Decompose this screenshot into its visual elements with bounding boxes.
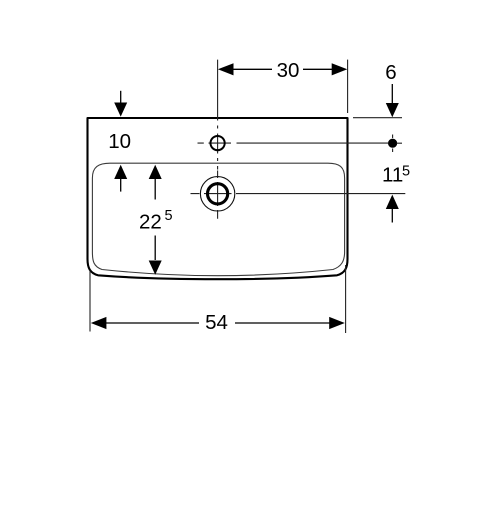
dim 10 arrow up	[114, 165, 127, 179]
drain outer circle	[200, 177, 234, 211]
svg-text:5: 5	[165, 208, 173, 224]
faucet hole	[211, 136, 225, 150]
svg-text:54: 54	[205, 311, 228, 334]
svg-text:10: 10	[108, 130, 131, 153]
dim 11.5 arrow	[386, 195, 399, 209]
drain centerline horizontal	[191, 193, 406, 195]
basin inner bowl	[92, 163, 344, 276]
dim 54 line	[105, 322, 330, 324]
faucet hole centerline vertical	[217, 60, 219, 170]
dim 30 arrow right	[332, 63, 348, 75]
basin outer outline	[88, 118, 348, 279]
faucet hole centerline horizontal	[198, 142, 389, 144]
dim 22.5 arrow down	[154, 236, 156, 261]
dim 30 line	[232, 68, 334, 70]
dim 22.5 arrow up	[149, 165, 162, 179]
svg-text:5: 5	[402, 163, 410, 179]
dim 54 extension line right	[345, 265, 347, 333]
drain centerline vertical	[217, 171, 219, 219]
dim 54 extension line left	[89, 271, 91, 332]
top edge extension line	[353, 117, 402, 119]
dim 6 arrow	[391, 84, 393, 104]
overflow dot node	[388, 139, 397, 148]
dim 54 arrow left	[91, 317, 107, 329]
dim 10 arrow down	[120, 91, 122, 103]
dim 30 extension line right	[347, 60, 349, 113]
dim 30 arrow left	[218, 63, 234, 75]
svg-text:30: 30	[277, 59, 300, 82]
drain inner circle	[208, 184, 228, 204]
svg-text:6: 6	[385, 61, 396, 84]
dim 54 arrow right	[329, 317, 345, 329]
svg-text:11: 11	[382, 163, 403, 186]
svg-text:22: 22	[139, 210, 162, 233]
